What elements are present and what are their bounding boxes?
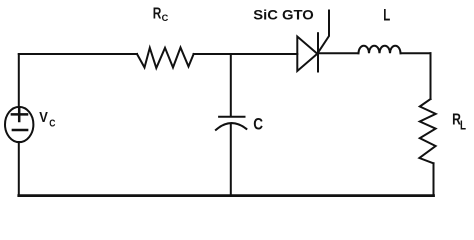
svg-text:C: C (162, 13, 169, 23)
svg-text:L: L (383, 7, 390, 25)
svg-text:SiC GTO: SiC GTO (253, 7, 314, 23)
svg-text:C: C (253, 116, 263, 134)
svg-text:V: V (39, 109, 48, 126)
svg-text:C: C (49, 119, 55, 130)
svg-text:L: L (460, 119, 466, 133)
svg-text:R: R (153, 5, 162, 22)
